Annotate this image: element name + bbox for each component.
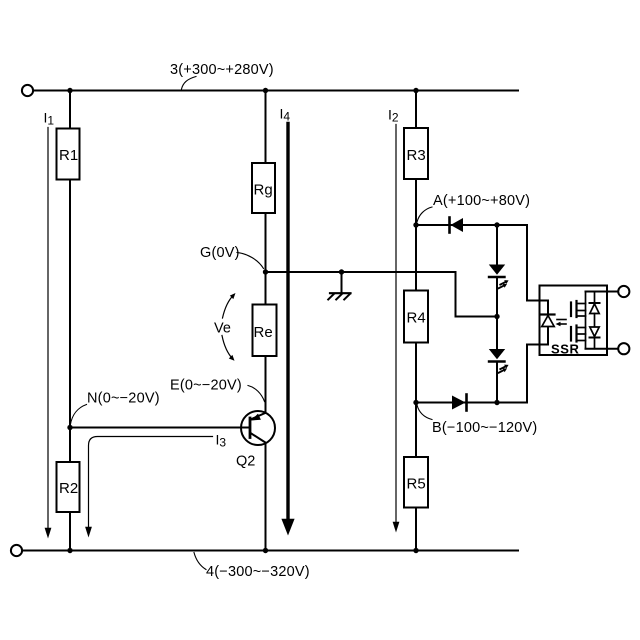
wire LED chain bottom [496,362,498,403]
diode D1 (node A branch) [450,218,464,233]
wire Re to Q2 emitter [265,356,267,413]
current arrow I4 thick [280,106,295,536]
wire rail to Rg [265,91,267,164]
junction top-middle (rail to Rg) [263,88,268,93]
ground [328,272,350,300]
junction LED chain middle [494,314,499,319]
node B junction [413,400,418,405]
wire LED chain middle [496,277,498,349]
wire SSR output bottom [586,348,619,350]
wire rail to R3 [415,91,417,129]
svg-text:B(−100~−120V): B(−100~−120V) [432,420,537,436]
terminal T4 output bottom [618,343,629,354]
svg-text:Rg: Rg [254,182,273,199]
terminal T1 top-left [22,85,33,96]
wire SSR output top [586,291,619,293]
arrow Ve upper [223,293,236,318]
wire R1 to N to R2 [69,180,71,463]
svg-text:Re: Re [254,324,273,341]
wire R5 to bottom rail [415,508,417,551]
wire top rail (net 3) [34,90,518,92]
svg-text:G(0V): G(0V) [200,245,240,261]
leader for net 3 label [182,77,197,90]
wire node B horizontal [416,402,527,404]
LED D3 [489,349,509,373]
svg-text:Ve: Ve [214,321,231,337]
leader for node G label [237,253,264,269]
wire R4 to R5 through node B [415,343,417,458]
arrow Ve lower [222,336,235,361]
wire R3 to R4 through node A [415,179,417,291]
wire SSR input lower [527,345,548,403]
wire bottom rail (net 4) [23,550,518,552]
junction LED chain bottom [494,400,499,405]
SSR box U1 [540,286,608,357]
leader for net 4 label [194,553,206,570]
diode D4 (node B branch) [452,395,467,411]
resistor R5 [404,457,428,508]
body diode D6 [590,327,600,349]
wire LED chain top [496,225,498,265]
resistor R4 [404,291,428,343]
svg-text:Q2: Q2 [236,454,255,470]
wire node A horizontal [416,224,527,226]
wire SSR input upper [527,225,548,301]
transistor Q2 [236,411,275,470]
junction bottom-left [67,548,72,553]
wire R2 to bottom rail [69,512,71,551]
leader for node A label [417,207,432,222]
current arrow I3 [85,432,226,538]
svg-text:N(0~−20V): N(0~−20V) [87,391,160,407]
node N junction [67,425,72,430]
svg-text:R3: R3 [407,147,426,164]
leader for node N label [70,405,86,426]
svg-text:A(+100~+80V): A(+100~+80V) [433,193,530,209]
svg-text:SSR: SSR [551,342,580,357]
resistor Rg [252,163,275,213]
wire base lead (N to Q2 base) [70,427,250,429]
resistor R3 [404,128,428,179]
junction top-right (rail to R3) [413,88,418,93]
svg-text:R5: R5 [407,476,426,493]
resistor R2 [57,462,80,512]
light coupling arrows [556,320,567,327]
node G junction [263,269,268,274]
svg-text:R4: R4 [407,310,426,327]
terminal T3 output top [618,286,629,297]
leader for node B label [417,405,432,420]
junction bottom-right [413,548,418,553]
svg-text:R2: R2 [59,480,78,497]
LED D2 [489,265,509,289]
body diode D5 [590,292,600,328]
junction ground tap [339,269,344,274]
wire G line jog to LED midpoint [456,272,497,317]
current arrow I2 [388,107,399,533]
wire Q2 collector to bottom rail [265,443,267,551]
MOSFET M2 [571,326,586,342]
node A junction [413,222,418,227]
resistor Re [253,305,277,357]
wire rail to R1 [69,91,71,129]
MOSFET M1 [571,301,586,317]
junction top-left (rail to R1) [67,88,72,93]
SSR input LED [542,301,555,345]
terminal T2 bottom-left [11,545,22,556]
current arrow I1 [44,110,55,539]
wire node G horizontal [266,271,456,273]
svg-text:3(+300~+280V): 3(+300~+280V) [170,62,274,78]
resistor R1 [57,129,80,180]
junction LED chain top [494,222,499,227]
wire MOSFET common rail [585,292,587,349]
wire Rg to Re through node G [265,213,267,305]
svg-text:4(−300~−320V): 4(−300~−320V) [206,564,310,580]
leader for node E label [248,386,265,402]
junction bottom-middle [263,548,268,553]
svg-text:R1: R1 [59,147,78,164]
svg-text:E(0~−20V): E(0~−20V) [170,378,242,394]
